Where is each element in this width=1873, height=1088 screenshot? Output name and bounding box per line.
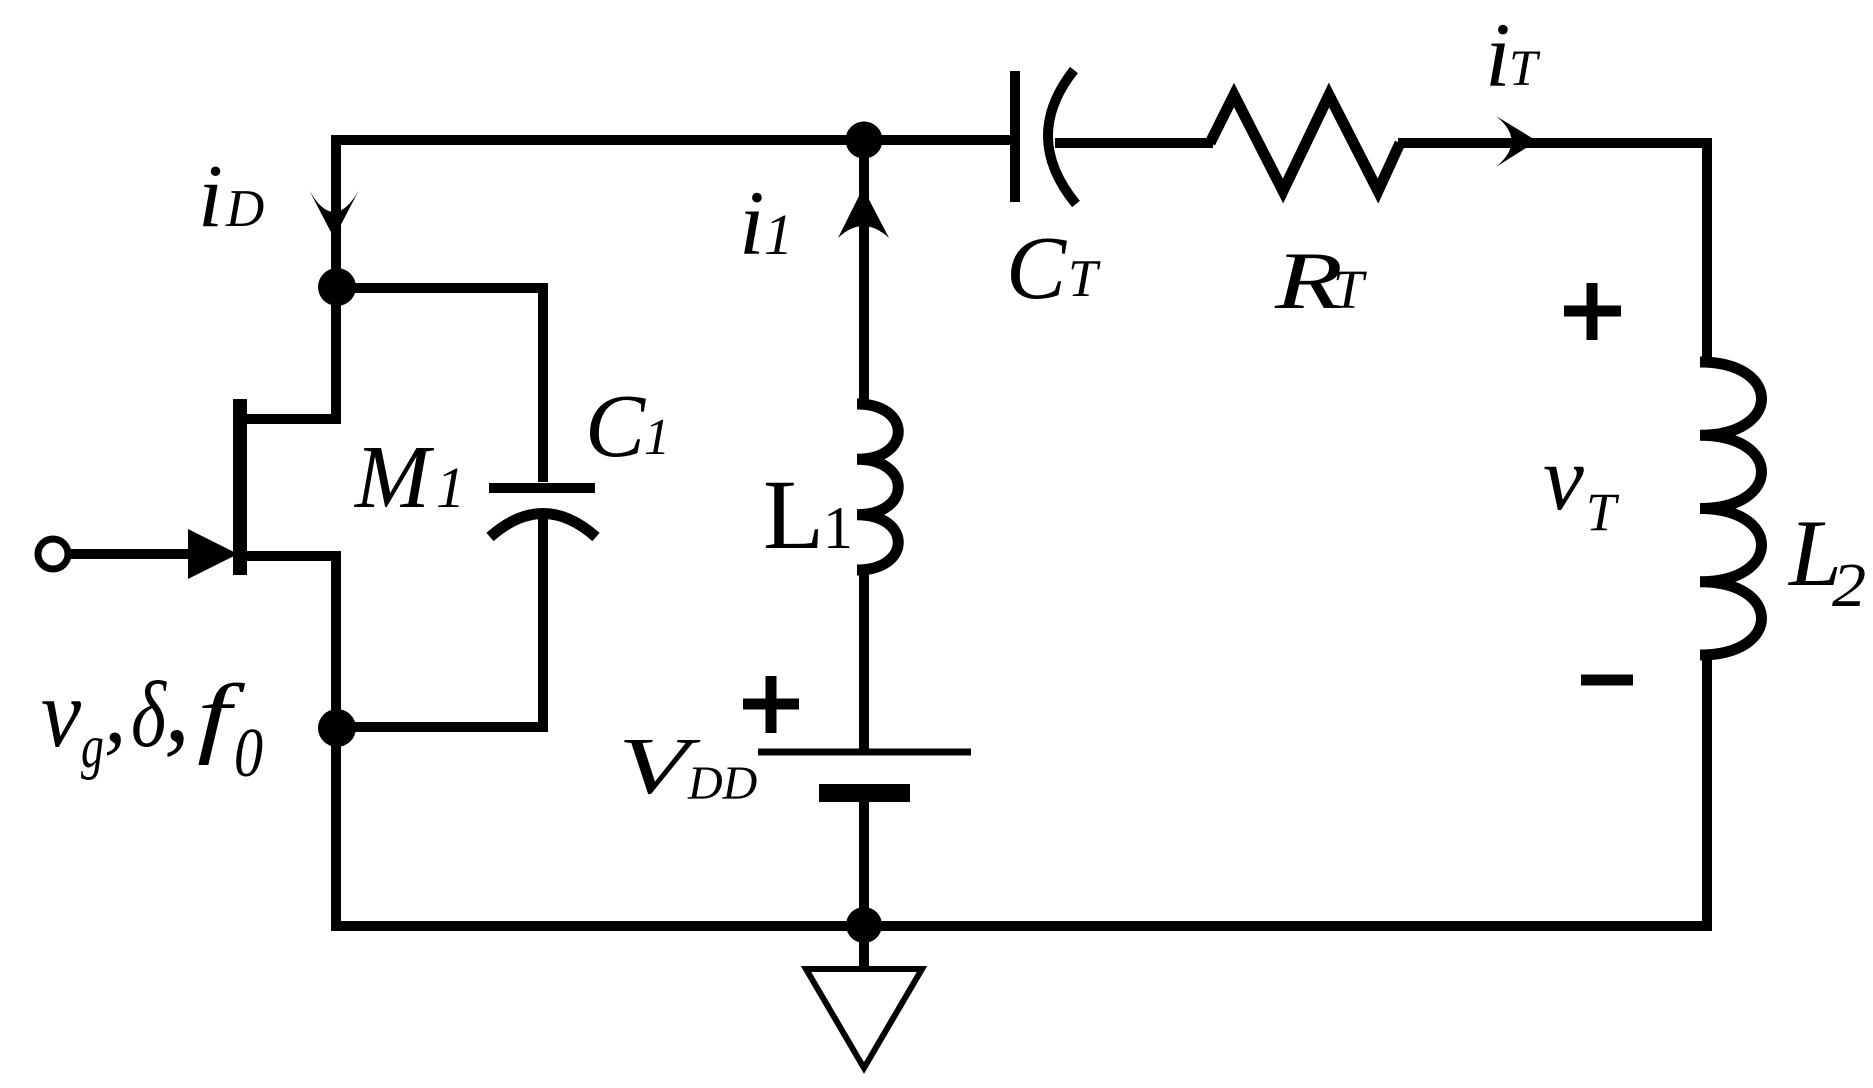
transistor M1 drain lead (246, 414, 341, 424)
svg-text:i: i (1485, 4, 1511, 106)
gate arrowhead (188, 529, 238, 579)
wire RT to right corner (1398, 138, 1712, 148)
node top rail dot (846, 122, 883, 159)
svg-text:T: T (1509, 41, 1541, 97)
svg-text:0: 0 (234, 714, 263, 791)
svg-text:T: T (1068, 250, 1101, 308)
wire left vertical drain drop (331, 135, 341, 420)
inductor L1 (857, 404, 898, 570)
wire CT to RT (1055, 138, 1213, 148)
svg-text:DD: DD (687, 757, 757, 810)
wire right vertical lower (1702, 655, 1712, 931)
svg-text:C: C (585, 377, 646, 476)
resistor RT zigzag (1210, 95, 1400, 191)
svg-text:1: 1 (764, 202, 793, 267)
wire C1 lower vertical (538, 517, 548, 727)
capacitor C1 flat plate (489, 483, 595, 493)
wire battery to ground rail (859, 802, 869, 926)
svg-text:i: i (739, 172, 765, 274)
arrow iT current arrowhead (1496, 116, 1537, 167)
svg-text:δ: δ (131, 663, 167, 767)
ground node dot (846, 907, 882, 943)
svg-text:,: , (104, 663, 127, 762)
label plus of vT (1564, 283, 1621, 340)
wire top rail left (node drain to CT) (331, 135, 1011, 145)
wire gate input lead (70, 549, 190, 559)
label plus of VDD (743, 676, 799, 733)
arrow i1 current arrowhead (838, 188, 889, 238)
svg-text:v: v (1543, 427, 1584, 529)
svg-text:,: , (164, 647, 190, 764)
svg-text:1: 1 (644, 409, 670, 466)
wire right vertical upper (1702, 138, 1712, 362)
svg-text:1: 1 (436, 455, 465, 520)
inductor L2 (1700, 362, 1762, 655)
transistor M1 source lead (246, 551, 341, 561)
svg-text:v: v (41, 661, 81, 768)
svg-text:g: g (81, 713, 104, 781)
svg-text:T: T (1586, 482, 1620, 542)
battery VDD positive plate (758, 749, 971, 756)
svg-text:i: i (198, 147, 223, 246)
arrow iD current arrowhead (309, 190, 359, 238)
capacitor CT flat plate (1010, 71, 1020, 202)
wire C1 top branch (337, 283, 543, 293)
label minus of vT (1581, 675, 1633, 686)
wire C1 bottom branch to source node (337, 722, 548, 732)
wire source drop to bottom rail (331, 551, 341, 926)
svg-text:D: D (225, 180, 264, 238)
wire bottom rail (331, 921, 1712, 931)
svg-text:T: T (1333, 259, 1367, 320)
svg-text:1: 1 (823, 495, 853, 561)
wire ground stub (859, 926, 869, 968)
wire C1 upper vertical (538, 283, 548, 482)
svg-text:L: L (763, 459, 824, 570)
wire i1 branch vertical (859, 140, 869, 404)
battery VDD negative plate (819, 784, 910, 802)
capacitor C1 curved plate (490, 514, 596, 538)
transistor M1 gate bar (233, 399, 247, 575)
wire L1 to battery (859, 570, 869, 750)
node B source node dot (318, 709, 356, 747)
svg-text:M: M (353, 428, 435, 527)
svg-text:2: 2 (1832, 552, 1866, 620)
node A drain node dot (318, 268, 356, 306)
capacitor CT curved plate (1048, 70, 1076, 204)
input terminal circle (38, 539, 68, 569)
svg-text:C: C (1006, 219, 1067, 318)
ground symbol triangle (806, 969, 922, 1068)
